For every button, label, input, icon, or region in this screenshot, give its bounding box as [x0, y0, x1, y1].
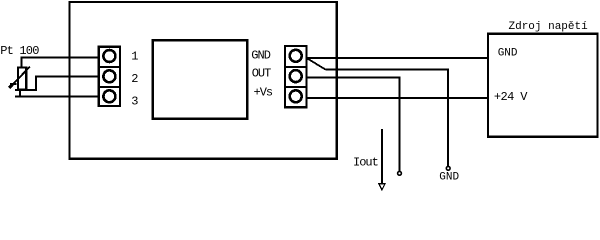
svg-text:GND: GND: [439, 172, 459, 184]
svg-text:GND: GND: [251, 48, 270, 62]
svg-text:1: 1: [131, 49, 138, 63]
svg-text:Zdroj napětí: Zdroj napětí: [509, 21, 589, 33]
svg-text:+24 V: +24 V: [494, 90, 528, 104]
svg-text:OUT: OUT: [252, 67, 271, 81]
svg-text:Pt 100: Pt 100: [0, 44, 39, 58]
svg-text:+Vs: +Vs: [254, 86, 273, 100]
svg-text:GND: GND: [498, 48, 518, 60]
svg-text:Iout: Iout: [353, 155, 378, 169]
svg-text:3: 3: [131, 94, 138, 108]
svg-text:2: 2: [131, 72, 138, 86]
